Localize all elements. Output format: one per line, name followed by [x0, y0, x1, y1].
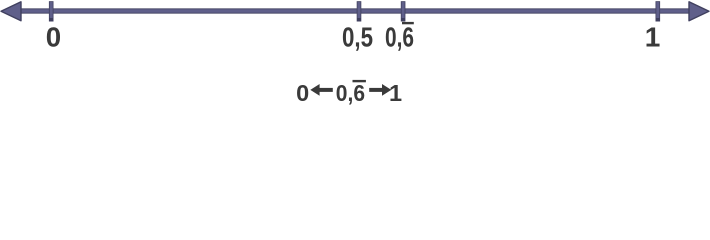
overline over 6 of formula 0,6 [353, 80, 366, 82]
number line axis [18, 8, 692, 13]
right arrowhead [689, 2, 709, 21]
tick 0,5 [357, 1, 362, 21]
svg-text:0,6: 0,6 [336, 80, 365, 106]
svg-text:0: 0 [296, 80, 309, 106]
overline over 6 of label 0,6 [402, 22, 414, 24]
formula right arrow [369, 84, 391, 96]
tick 0 [49, 1, 54, 21]
tick 0,6 repeating [401, 1, 406, 21]
svg-text:1: 1 [389, 80, 402, 106]
left arrowhead [1, 2, 21, 21]
svg-text:0,6: 0,6 [385, 21, 414, 52]
svg-text:0,5: 0,5 [342, 21, 373, 52]
svg-text:1: 1 [645, 21, 661, 52]
formula left arrow [310, 84, 333, 96]
tick 1 [656, 1, 661, 21]
svg-text:0: 0 [46, 21, 61, 52]
